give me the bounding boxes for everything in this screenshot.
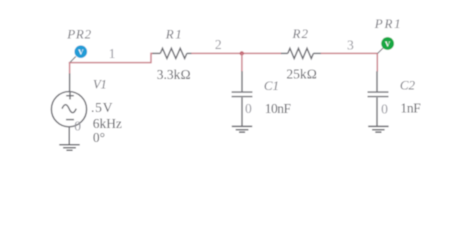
resistor R1 value 3.3k [157,67,191,82]
wire net 2 from R1 to R2 [191,52,281,54]
svg-text:10nF: 10nF [265,101,292,116]
net 0 label at C1 [245,101,252,116]
capacitor C2 top pin [376,71,378,91]
capacitor C1 top pin [241,71,243,91]
ground below V1 [59,145,79,151]
svg-text:0: 0 [74,119,81,134]
svg-text:0: 0 [245,101,252,116]
node 2 label [215,37,222,52]
resistor R1 designator [165,27,183,42]
resistor R1 zigzag [160,48,187,58]
resistor R2 left pin [281,52,288,54]
capacitor C2 value 1nF [400,101,421,116]
AC source V1 body circle [51,92,86,127]
net 0 label at C2 [381,101,388,116]
wire net 1 horizontal corner to R1 step [69,62,151,64]
AC source V1 minus sign [66,119,74,121]
svg-text:3.3kΩ: 3.3kΩ [157,67,191,82]
capacitor C1 value 10nF [265,101,292,116]
probe PR1 pointer [378,48,384,54]
AC source V1 value .5V [91,100,113,115]
svg-text:V1: V1 [93,76,106,91]
probe PR1 designator [374,16,402,31]
svg-text:1: 1 [109,46,116,61]
svg-text:25kΩ: 25kΩ [286,66,317,81]
svg-text:1nF: 1nF [400,101,421,116]
svg-text:0: 0 [381,101,388,116]
svg-text:.5V: .5V [91,100,113,115]
capacitor C1 bottom pin [241,98,243,126]
resistor R1 left pin [152,52,160,54]
svg-text:0°: 0° [93,130,105,145]
svg-text:PR1: PR1 [374,16,402,31]
AC source V1 plus sign [66,92,74,100]
capacitor C1 designator [264,78,279,93]
svg-text:C2: C2 [400,78,416,93]
svg-text:R1: R1 [165,27,183,42]
node 1 label [109,46,116,61]
svg-text:2: 2 [215,37,222,52]
AC source V1 top pin [69,74,71,92]
resistor R2 designator [292,26,309,41]
wire net 2 drop to C1 [241,53,243,72]
probe PR2 V letter [78,48,84,57]
junction node 2 dot [240,51,244,55]
resistor R2 value 25k [286,66,317,81]
probe PR2 designator [66,26,92,41]
svg-text:C1: C1 [264,78,279,93]
capacitor C2 bottom pin [376,98,378,126]
svg-text:R2: R2 [292,26,309,41]
wire net 1 step up into R1 left pin [151,53,153,63]
probe PR2 body [75,45,88,58]
resistor R2 right pin [313,52,321,54]
wire net 3 from R2 to corner and down to C2 [321,53,378,71]
probe PR1 body [381,37,394,50]
probe PR2 pointer [70,57,76,63]
capacitor C2 plates [368,92,389,97]
resistor R1 right pin [187,52,192,54]
svg-text:V: V [78,48,84,57]
ground below C2 [368,126,388,132]
svg-text:3: 3 [347,37,354,52]
node 3 label [347,37,354,52]
AC source V1 sine symbol [62,105,76,113]
capacitor C1 plates [232,92,253,97]
AC source V1 bottom pin [68,127,70,144]
svg-text:PR2: PR2 [66,26,92,41]
svg-text:V: V [385,40,391,49]
svg-text:6kHz: 6kHz [93,116,122,131]
net 0 label at V1 [74,119,81,134]
AC source V1 value 0 deg [93,130,105,145]
AC source V1 value 6kHz [93,116,122,131]
capacitor C2 designator [400,78,416,93]
ground below C1 [232,126,252,132]
probe PR1 V letter [385,40,391,49]
wire net 1 vertical from corner down to V1 top pin [69,63,71,74]
resistor R2 zigzag [288,48,314,58]
AC source V1 designator [93,76,106,91]
